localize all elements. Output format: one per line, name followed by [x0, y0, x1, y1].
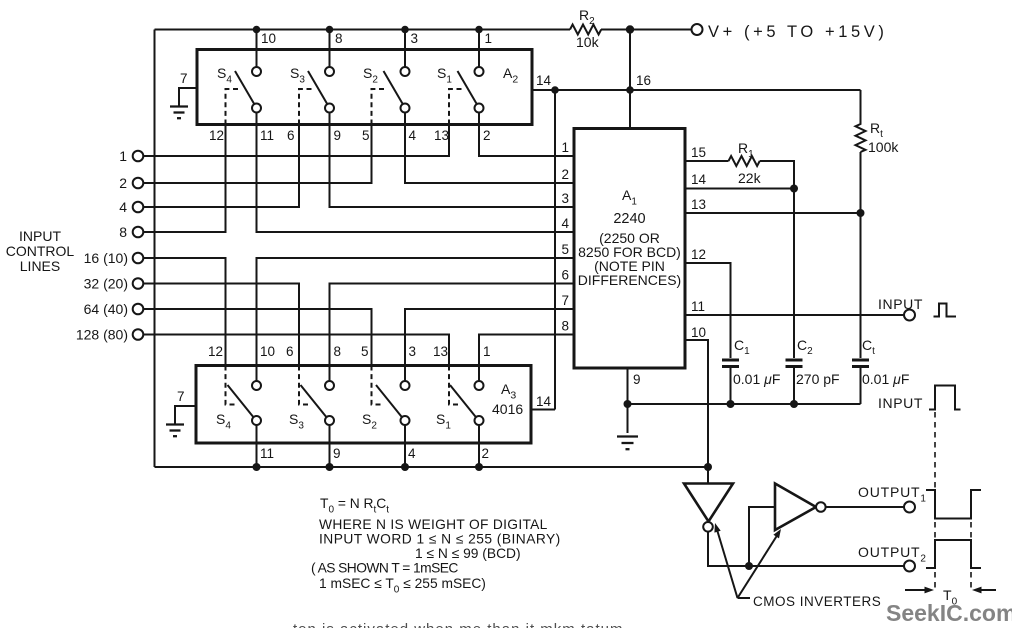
wire: tap up to inverter U2 input: [749, 507, 775, 566]
svg-text:10k: 10k: [576, 34, 600, 50]
svg-text:64 (40): 64 (40): [84, 301, 128, 317]
wire: input row 16 to A3 pin 12: [144, 258, 226, 366]
waveform: input trigger pulse (small): [934, 304, 957, 317]
svg-text:SeekIC.com: SeekIC.com: [886, 600, 1012, 626]
svg-text:1: 1: [483, 344, 491, 359]
wire: input row 1 to A2 pin 13: [144, 125, 450, 157]
ground (A1 pin 9): [617, 437, 638, 450]
dashed timing line right: [970, 502, 972, 588]
label CMOS INVERTERS with leader arrows: [714, 523, 881, 609]
wire: A3 pin 7 to ground: [175, 406, 196, 424]
waveform: OUTPUT1: [926, 490, 981, 519]
junction: ground-bus / inverter input: [704, 463, 712, 471]
svg-text:0.01 μF: 0.01 μF: [862, 371, 909, 387]
wire: A1 pin 15 stub: [685, 160, 729, 162]
wire: rail to A2 pin 10: [256, 30, 258, 50]
svg-text:4: 4: [409, 128, 417, 143]
wire: input row 64 to A3 pin 5: [144, 309, 372, 366]
svg-text:11: 11: [691, 299, 705, 314]
switch S1 (A3): [436, 366, 484, 444]
svg-text:( AS SHOWN T = 1mSEC: ( AS SHOWN T = 1mSEC: [311, 561, 458, 576]
wire: C1 to timing rail: [730, 368, 732, 404]
wire: A1 pin 12 to C1: [685, 263, 731, 358]
svg-text:5: 5: [362, 128, 370, 143]
svg-text:2: 2: [119, 175, 127, 191]
terminal: V+: [692, 24, 703, 35]
svg-text:14: 14: [691, 172, 707, 187]
svg-text:3: 3: [409, 344, 417, 359]
wire: inverter U1 out to OUTPUT2 line: [708, 532, 904, 566]
svg-text:CONTROL: CONTROL: [6, 243, 75, 259]
junction: C2/rail: [790, 400, 798, 408]
svg-text:6: 6: [561, 268, 569, 283]
svg-text:2240: 2240: [613, 211, 645, 227]
svg-text:13: 13: [434, 128, 449, 143]
wire: A3 pin 4 to ground bus: [404, 443, 406, 467]
junction: rail/pin3: [401, 26, 409, 34]
svg-text:270 pF: 270 pF: [796, 371, 840, 387]
wire: input row 32 to A3 pin 6: [144, 284, 300, 366]
switch S2 (A3): [362, 366, 410, 444]
wire: left bus vertical: [154, 30, 156, 468]
capacitor Ct: [852, 360, 869, 367]
dimension arrow left (T0): [905, 589, 926, 591]
junction: V+ node below R2: [626, 25, 634, 33]
svg-text:14: 14: [536, 394, 552, 409]
dimension arrow right (T0): [980, 589, 996, 591]
svg-text:10: 10: [261, 31, 276, 46]
capacitor C2: [786, 360, 803, 367]
svg-text:13: 13: [433, 344, 448, 359]
svg-text:8: 8: [334, 344, 342, 359]
wire: node 13 down to Ct: [860, 213, 862, 358]
ground (A3 pin 7): [166, 425, 184, 437]
wire: A2 pin 9 to A1 pin 3: [330, 125, 575, 208]
wire: R2 to V+ terminal: [601, 29, 692, 31]
svg-text:INPUT: INPUT: [878, 395, 923, 411]
svg-text:12: 12: [691, 247, 706, 262]
switch S4 (A2): [217, 51, 261, 125]
svg-text:INPUT: INPUT: [878, 296, 923, 312]
svg-text:10: 10: [260, 344, 275, 359]
A3 bottom pin labels 11 9 4 2: [260, 446, 489, 461]
svg-text:2: 2: [482, 446, 490, 461]
wire: rail to A2 pin 1: [478, 30, 480, 50]
analog switch bank A2 (CD4016 top): [197, 50, 532, 125]
waveform: INPUT pulse (large): [929, 386, 961, 410]
svg-text:CMOS INVERTERS: CMOS INVERTERS: [753, 594, 881, 609]
wire: A2 pin 4 to A1 pin 2: [405, 125, 574, 184]
svg-text:3: 3: [411, 31, 419, 46]
svg-text:DIFFERENCES): DIFFERENCES): [578, 272, 681, 288]
svg-text:13: 13: [691, 197, 706, 212]
svg-text:12: 12: [208, 344, 223, 359]
junction: pin9/rail: [624, 400, 632, 408]
svg-text:7: 7: [180, 71, 188, 86]
junction: inverter2 input tap: [745, 562, 753, 570]
wire: A3 pin 2 to ground bus: [478, 443, 480, 467]
analog switch bank A3 (CD4016 bottom): [196, 366, 531, 444]
svg-text:100k: 100k: [868, 139, 899, 155]
svg-text:5: 5: [361, 344, 369, 359]
svg-text:1: 1: [561, 140, 569, 155]
svg-text:8: 8: [561, 319, 569, 334]
svg-text:4: 4: [561, 216, 569, 231]
svg-text:7: 7: [561, 293, 569, 308]
wire: A3 pin 3 to A1 pin 7: [405, 309, 574, 366]
wire: input row 128 to A3 pin 13: [144, 335, 450, 366]
wire: node 14 down to C2: [793, 189, 795, 359]
wire: rail to A2 pin 3: [404, 30, 406, 50]
label: INPUT CONTROL LINES: [6, 228, 75, 274]
junction: rail/pin8: [326, 26, 334, 34]
svg-text:4: 4: [119, 199, 127, 215]
wire: A3 pin 10 to A1 pin 5: [257, 258, 575, 366]
svg-text:ton is activated when: ton is activated when me than it mkm tat…: [293, 621, 623, 628]
wire: A3 pin 8 to A1 pin 6: [330, 284, 575, 366]
svg-text:WHERE N IS WEIGHT OF DIGITAL: WHERE N IS WEIGHT OF DIGITAL: [319, 517, 548, 532]
wire: Rt to node 13: [860, 152, 862, 213]
svg-text:15: 15: [691, 145, 706, 160]
wire: input row 2 to A2 pin 5: [144, 125, 372, 184]
svg-text:22k: 22k: [738, 170, 762, 186]
wire: Ct to timing rail corner: [860, 368, 862, 404]
junction: rail/pin1: [475, 26, 483, 34]
svg-text:14: 14: [536, 73, 552, 88]
wire: C2 to timing rail: [793, 368, 795, 404]
dashed timing line left: [934, 412, 936, 588]
wire: R1 to node 14: [760, 161, 794, 189]
svg-text:4: 4: [408, 446, 416, 461]
wire: A2 pin 11 to A1 pin 4: [257, 125, 575, 233]
wire: V+ top rail: [155, 29, 571, 31]
svg-text:1: 1: [485, 31, 493, 46]
switch S3 (A3): [289, 366, 334, 444]
wire: rail to A2 pin 8: [329, 30, 331, 50]
wire: bottom ground bus: [155, 466, 709, 468]
wire: A1 pin 10 down to inverter: [685, 340, 708, 484]
terminal: OUTPUT2: [904, 561, 915, 572]
inverter U2 (CMOS, pointing right): [775, 484, 826, 531]
capacitor C1: [722, 360, 739, 367]
wire: inverter U2 out to OUTPUT1: [826, 506, 904, 508]
svg-text:12: 12: [209, 128, 224, 143]
svg-text:16 (10): 16 (10): [84, 250, 128, 266]
A2 bottom pin labels 12 11 6 9 5 4 13 2: [209, 128, 491, 143]
svg-text:V+ (+5 TO +15V): V+ (+5 TO +15V): [708, 23, 888, 41]
wire: VDD row (A2 pin14 / pin16 / Rt): [532, 89, 861, 91]
A1 left pin labels 1-8: [561, 140, 569, 334]
svg-text:INPUT WORD 1 ≤ N ≤ 255 (BINARY: INPUT WORD 1 ≤ N ≤ 255 (BINARY): [319, 532, 561, 547]
wire: supply vertical to A1 pin 16: [629, 30, 631, 129]
wire: A3 pin 9 to ground bus: [329, 443, 331, 467]
svg-text:11: 11: [260, 446, 274, 461]
junction: node 14 / C2: [790, 185, 798, 193]
wire: input row 4 to A2 pin 6: [144, 125, 300, 208]
ground (A2 pin 7): [170, 107, 188, 119]
junction: rail/pin10: [253, 26, 261, 34]
terminal: OUTPUT1: [904, 502, 915, 513]
junction: C1/rail: [727, 400, 735, 408]
terminal: INPUT (trigger): [904, 310, 915, 321]
svg-text:128 (80): 128 (80): [76, 327, 128, 343]
svg-text:8: 8: [119, 224, 127, 240]
wire: A1 pin 9 to rail: [627, 368, 629, 433]
svg-text:0.01 μF: 0.01 μF: [733, 371, 780, 387]
svg-text:10: 10: [691, 325, 706, 340]
svg-text:9: 9: [633, 372, 641, 387]
wire: A3 pin 1 to A1 pin 8: [479, 335, 574, 366]
inverter U1 (CMOS, pointing down): [684, 484, 733, 532]
wire: input row 8 to A2 pin 12: [144, 125, 226, 233]
wire: VDD bus down to A3 pin 14: [554, 90, 556, 410]
junction: A2 pin 14 node: [551, 86, 559, 94]
wire: A1 pin 14 stub: [685, 188, 794, 190]
junction: pin 16 node: [626, 86, 634, 94]
junction: node pin13/Rt/Ct: [857, 209, 865, 217]
wire: A2 pin 2 to A1 pin 1: [479, 125, 574, 157]
svg-text:9: 9: [334, 128, 342, 143]
svg-text:5: 5: [561, 242, 569, 257]
wire: A3 pin 14 to VDD bus: [531, 409, 555, 411]
A3 top pin labels 12 10 6 8 5 3 13 1: [208, 344, 491, 359]
resistor R1: [729, 156, 760, 166]
note: timing formula: [311, 496, 561, 596]
svg-text:LINES: LINES: [20, 258, 60, 274]
waveform: OUTPUT2: [926, 540, 981, 568]
wire: timing/ground rail y404: [628, 403, 861, 405]
svg-text:3: 3: [561, 191, 569, 206]
switch S2 (A2): [363, 51, 410, 125]
svg-text:1: 1: [119, 148, 127, 164]
switch S3 (A2): [290, 51, 334, 125]
svg-text:7: 7: [177, 389, 185, 404]
svg-text:16: 16: [636, 73, 651, 88]
resistor Rt: [856, 90, 866, 152]
wire: A3 pin 11 to ground bus: [256, 443, 258, 467]
A1 right pin labels 15 14 13 12 11 10: [691, 145, 707, 340]
wire: A1 pin 11 to INPUT terminal: [685, 314, 904, 316]
timer IC A1 (2240): [574, 129, 685, 369]
input line weight labels: [76, 148, 128, 343]
wire: A2 pin 7 to ground: [179, 88, 197, 106]
svg-text:4016: 4016: [492, 401, 523, 417]
input terminals (8 circles): [133, 151, 144, 340]
svg-text:8: 8: [335, 31, 343, 46]
svg-text:32 (20): 32 (20): [84, 276, 128, 292]
resistor R2: [570, 25, 601, 35]
svg-text:INPUT: INPUT: [19, 228, 61, 244]
svg-text:2: 2: [561, 167, 569, 182]
svg-text:1 ≤ N ≤ 99 (BCD): 1 ≤ N ≤ 99 (BCD): [415, 546, 521, 561]
label A1 2240 block text: [578, 187, 681, 288]
svg-text:11: 11: [260, 128, 274, 143]
svg-text:2: 2: [483, 128, 491, 143]
switch S4 (A3): [216, 366, 261, 444]
svg-text:6: 6: [286, 344, 294, 359]
svg-text:6: 6: [287, 128, 295, 143]
svg-text:9: 9: [333, 446, 341, 461]
wire: A1 pin 13 stub to Rt node: [685, 212, 861, 214]
switch S1 (A2): [437, 51, 484, 125]
